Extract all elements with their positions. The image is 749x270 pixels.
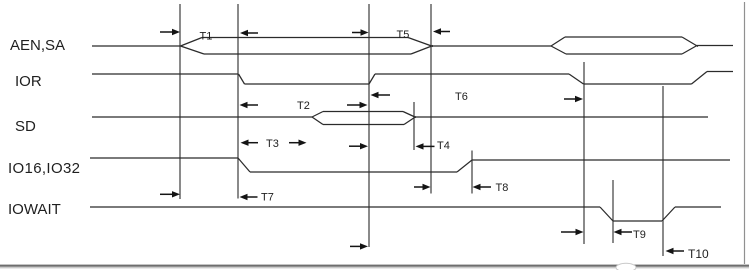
svg-text:AEN,SA: AEN,SA bbox=[10, 37, 65, 54]
wire IO16 falling edge bbox=[238, 158, 250, 172]
wire vertical reference line 3 bbox=[368, 4, 370, 247]
node T4 dimension left arrow pointing to line 3 bbox=[349, 143, 368, 149]
wire IOWAIT high segment bbox=[90, 206, 600, 208]
node T3 dimension right arrow bbox=[289, 140, 307, 146]
wire AEN,SA second bus rails bbox=[565, 37, 682, 54]
svg-text:T1: T1 bbox=[200, 31, 213, 43]
wire IOWAIT falling edge bbox=[600, 207, 613, 221]
node T4 dimension right arrow pointing to tick bbox=[416, 143, 435, 149]
wire AEN,SA bus open transition bbox=[181, 38, 205, 55]
wire IOWAIT rising edge bbox=[662, 207, 675, 221]
wire IOR rising edge 2 bbox=[692, 72, 708, 85]
wire IOR falling edge 1 bbox=[239, 74, 245, 84]
wire SD bus rails bbox=[323, 112, 404, 125]
wire AEN,SA bus bottom rail bbox=[204, 53, 411, 55]
wire AEN,SA tail segment bbox=[697, 45, 734, 47]
svg-text:IOWAIT: IOWAIT bbox=[8, 201, 61, 218]
wire vertical reference line 1 bbox=[179, 4, 181, 199]
wire AEN,SA second bus open bbox=[551, 37, 566, 54]
svg-text:T4: T4 bbox=[437, 140, 450, 152]
border bottom shadow line bbox=[0, 265, 749, 267]
svg-text:T6: T6 bbox=[455, 91, 468, 103]
node T6 dimension left arrow bbox=[371, 92, 391, 98]
node T8 dimension right arrow bbox=[473, 184, 492, 190]
node T7 dimension right arrow bbox=[240, 194, 258, 200]
wire AEN,SA second bus close bbox=[682, 37, 698, 54]
node T9 dimension left arrow bbox=[561, 229, 584, 235]
wire vertical reference line 2 bbox=[237, 4, 239, 199]
border bottom notch bump bbox=[616, 263, 636, 270]
wire vertical reference line 4 bbox=[430, 4, 432, 194]
wire IOWAIT tail segment bbox=[675, 206, 721, 208]
wire IOR low segment 2 bbox=[584, 83, 692, 85]
svg-text:T3: T3 bbox=[266, 138, 279, 150]
wire IOR tail segment bbox=[707, 71, 733, 73]
wire vertical reference line 5 bbox=[583, 62, 585, 244]
wire IO16 low segment bbox=[250, 171, 457, 173]
wire SD tail segment bbox=[414, 116, 708, 118]
wire IOR falling edge 2 bbox=[569, 74, 584, 84]
node T2 dimension left arrow bbox=[240, 102, 259, 108]
wire SD bus open transition bbox=[312, 112, 323, 125]
node T9 dimension right arrow bbox=[614, 229, 633, 235]
wire IOR rising edge 1 bbox=[369, 74, 375, 84]
node T1 dimension left arrow bbox=[160, 29, 180, 35]
svg-text:IO16,IO32: IO16,IO32 bbox=[8, 160, 80, 177]
node T5 dimension right arrow bbox=[433, 28, 450, 34]
svg-text:T10: T10 bbox=[688, 247, 709, 261]
node T6 dimension right arrow bbox=[564, 96, 583, 102]
node T5 dimension left arrow bbox=[352, 29, 369, 35]
wire SD bus close transition bbox=[403, 112, 416, 125]
svg-text:IOR: IOR bbox=[15, 73, 42, 90]
border right edge bbox=[744, 2, 746, 264]
wire IO16 tail segment bbox=[472, 159, 730, 161]
node T1 dimension right arrow bbox=[240, 30, 258, 36]
node T2 dimension right arrow bbox=[347, 102, 368, 108]
svg-text:SD: SD bbox=[15, 118, 36, 135]
svg-text:T9: T9 bbox=[633, 229, 646, 241]
wire IO16 high segment bbox=[90, 157, 238, 159]
wire vertical reference line 6 bbox=[662, 86, 664, 256]
node T8 dimension left arrow bbox=[414, 184, 431, 190]
wire IOR high segment 2 bbox=[375, 73, 569, 75]
svg-text:T7: T7 bbox=[261, 192, 274, 204]
wire tick T4 edge marker bbox=[413, 102, 415, 150]
wire AEN,SA bus close transition bbox=[408, 38, 433, 55]
wire IO16 rising edge bbox=[457, 160, 472, 172]
svg-text:T2: T2 bbox=[297, 100, 310, 112]
wire AEN,SA steady segment bbox=[431, 45, 551, 47]
node T10 dimension arrow bbox=[666, 248, 685, 254]
wire tick T9 edge marker bbox=[612, 180, 614, 243]
svg-text:T8: T8 bbox=[496, 182, 509, 194]
node dimension arrow at bottom of reference line 3 bbox=[350, 243, 368, 249]
wire SD lead-in bbox=[92, 116, 312, 118]
wire IOR low segment 1 bbox=[245, 83, 370, 85]
wire AEN,SA bus top rail bbox=[202, 37, 408, 39]
wire AEN,SA lead-in bbox=[92, 45, 181, 47]
node T7 dimension left arrow bbox=[160, 191, 180, 197]
wire tick T8 edge marker bbox=[471, 151, 473, 194]
node T3 dimension left arrow bbox=[241, 140, 259, 146]
wire IOR high segment 1 bbox=[92, 73, 238, 75]
wire IOWAIT low segment bbox=[613, 220, 662, 222]
svg-text:T5: T5 bbox=[397, 29, 410, 41]
border bottom light shading bbox=[0, 267, 749, 269]
